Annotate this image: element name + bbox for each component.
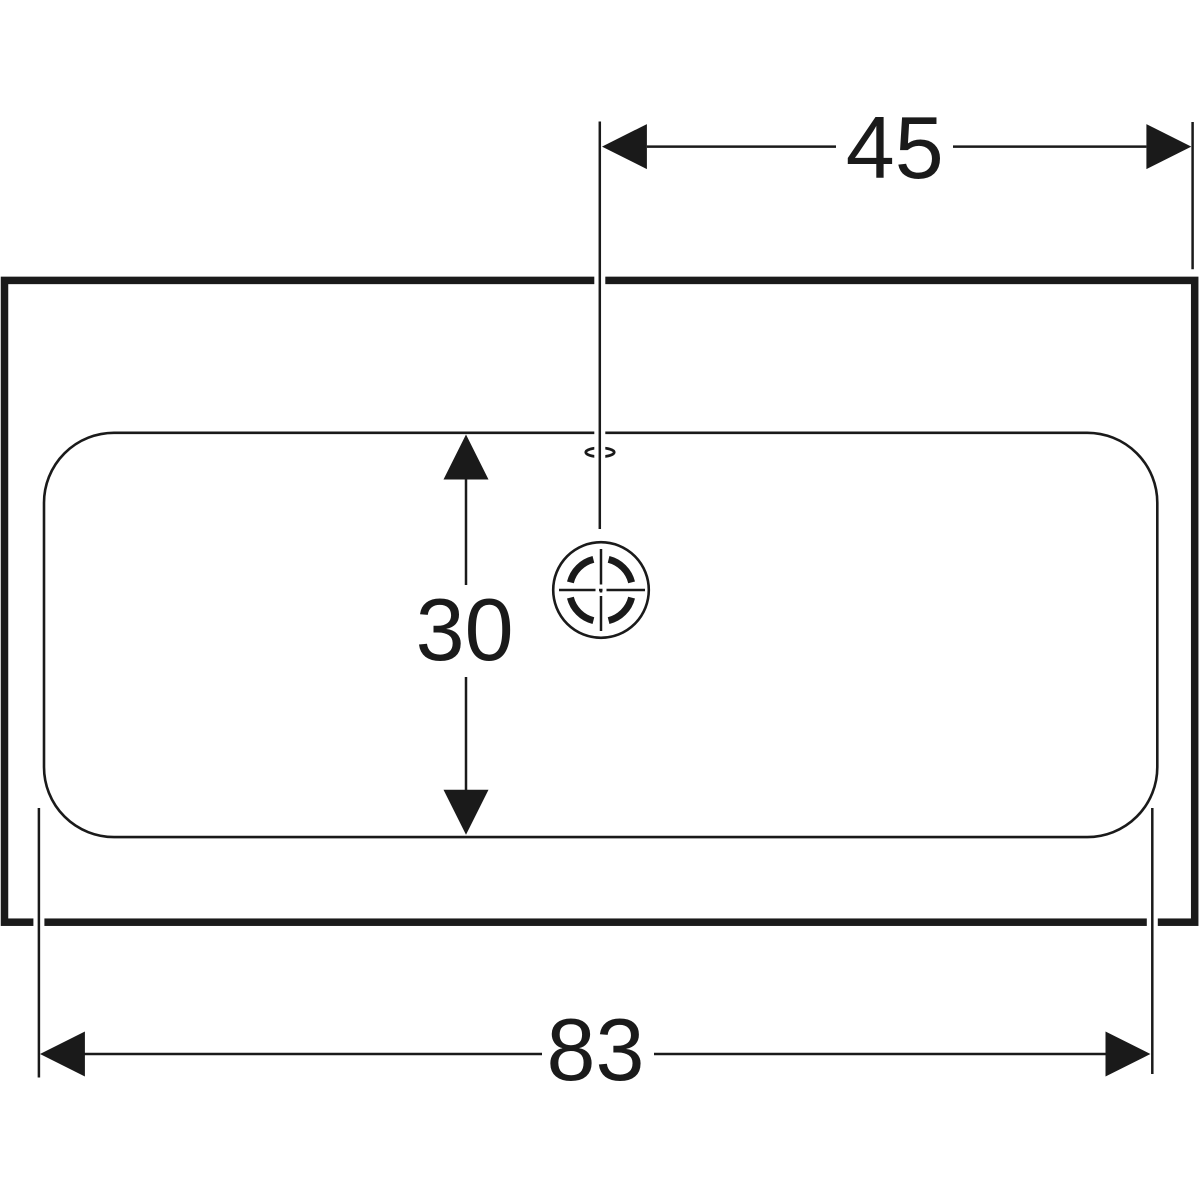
dim 83: left arrowhead [40,1032,85,1077]
drain outer circle [553,542,649,638]
dim 83: dimension line left segment [84,1053,542,1056]
dim 45: dimension line right segment [953,145,1146,148]
centre line (tap hole axis) [599,122,602,530]
dim 45: right extension line [1191,122,1194,269]
drain crosshair vertical dashes [600,549,603,631]
dim 30: dimension line lower segment [465,677,468,793]
dim 45: left arrowhead [602,124,647,169]
svg-text:45: 45 [846,98,944,197]
svg-text:83: 83 [547,1000,645,1099]
dim 83: right extension line [1151,808,1154,1074]
svg-text:30: 30 [416,580,514,679]
dim 30: up arrowhead [444,435,489,480]
dim 83: left extension line white casing [33,808,44,1078]
drain crosshair horizontal dashes [559,589,645,592]
dim 30: down arrowhead [444,790,489,835]
dim 83: right extension line white casing [1147,808,1158,1074]
centre line white casing [594,122,605,530]
dim 30: dimension line upper segment [465,480,468,586]
drain crosshair white casing vertical [596,549,607,631]
overflow slot ellipse [586,448,614,457]
dim 83: right arrowhead [1106,1032,1151,1077]
drain crosshair white casing horizontal [559,585,645,596]
dim 45: right arrowhead [1146,124,1191,169]
washbasin outer edge (thick rectangle) [5,280,1195,922]
dim 83: left extension line [38,808,41,1078]
dim 45: dimension line left segment [647,145,836,148]
basin inner rim (rounded rectangle) [44,433,1157,837]
drain inner ring (four arcs) [570,559,631,620]
dim 83: dimension line right segment [654,1053,1106,1056]
